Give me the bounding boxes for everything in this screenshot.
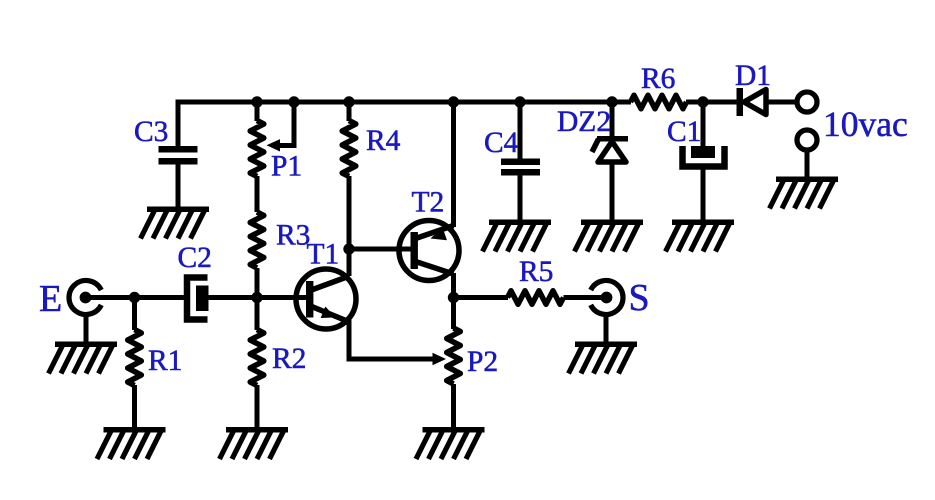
svg-text:D1: D1 (735, 60, 771, 92)
zener diode DZ2 (592, 136, 628, 162)
wire P1 to R3 (255, 176, 260, 212)
svg-text:C3: C3 (134, 116, 168, 148)
wire T2 base (349, 247, 412, 252)
wire R4 top stub (347, 102, 352, 121)
transistor T2 (PNP) (399, 221, 459, 281)
wire E terminal to C2 (85, 295, 185, 300)
wire D1 to 10vac terminal (766, 100, 797, 105)
ground (E) (49, 342, 118, 374)
diode D1 (737, 88, 767, 116)
terminal S (output connector) (591, 281, 623, 315)
transistor T1 (NPN) (296, 269, 356, 329)
svg-text:R1: R1 (148, 345, 182, 377)
wire C1 node to D1 (703, 100, 737, 105)
ground (R2) (220, 427, 289, 459)
ground (C1) (666, 220, 735, 252)
svg-text:T1: T1 (307, 239, 340, 271)
terminal E (input connector) (69, 281, 101, 315)
ground (DZ2) (575, 220, 644, 252)
wire rail to R6 (610, 100, 631, 105)
resistor R3 (250, 212, 264, 268)
resistor R2 (250, 330, 264, 386)
svg-text:C1: C1 (667, 116, 701, 148)
svg-text:10vac: 10vac (823, 104, 908, 144)
junction node (349,249) (343, 243, 354, 254)
junction node (257,297.5) (251, 292, 262, 303)
wire P1 top stub (255, 102, 260, 121)
svg-text:R6: R6 (641, 63, 675, 95)
svg-text:C4: C4 (484, 127, 519, 159)
wire P1 wiper vertical (292, 102, 297, 146)
wire R6 to C1 node (686, 100, 704, 105)
wire C3 top stub (176, 100, 181, 147)
svg-text:P1: P1 (271, 151, 302, 183)
wire C2 to T1 base (208, 295, 306, 300)
capacitor C1 (polarized) (683, 146, 725, 167)
wire R3 to R2 node (255, 268, 260, 330)
wire E terminal to ground (84, 314, 89, 343)
svg-text:C2: C2 (178, 242, 212, 274)
junction node (453.5,102) (448, 96, 459, 107)
resistor R6 (631, 95, 687, 109)
wire top supply rail (178, 100, 612, 105)
wire P2 to ground (451, 384, 456, 428)
wire DZ2 top (610, 102, 615, 138)
svg-text:S: S (629, 277, 650, 319)
wire 10vac lower terminal to ground (805, 151, 810, 178)
svg-text:R3: R3 (276, 220, 310, 252)
capacitor C3 (159, 146, 198, 165)
wire R4 bottom to T1 collector / T2 base node (347, 176, 352, 276)
wire P1 wiper horizontal (277, 143, 297, 148)
capacitor C4 (501, 159, 540, 176)
svg-text:R4: R4 (366, 125, 401, 157)
svg-text:E: E (39, 278, 62, 320)
capacitor C2 (polarized) (187, 278, 209, 320)
ground (P2) (416, 427, 485, 459)
svg-text:R5: R5 (519, 256, 553, 288)
wire C1 to ground (701, 169, 706, 221)
resistor R5 (508, 291, 564, 305)
wire R5 to S terminal (564, 295, 605, 300)
svg-text:P2: P2 (467, 346, 498, 378)
wire T2 emitter vertical from rail (451, 102, 456, 227)
wire T1 emitter to P2 wiper (347, 357, 437, 362)
wire DZ2 to ground (610, 161, 615, 221)
ground (S) (569, 342, 638, 374)
wire node to R5 (454, 295, 509, 300)
junction node (612,102) (606, 96, 617, 107)
svg-text:DZ2: DZ2 (557, 106, 611, 138)
wire R1 to ground (132, 385, 137, 428)
ground (C4) (483, 220, 552, 252)
wire C4 top (518, 102, 523, 159)
wire P2 top stub (451, 298, 456, 330)
svg-text:R2: R2 (272, 343, 306, 375)
wire C3 to ground (176, 164, 181, 208)
resistor R4 (342, 121, 356, 177)
wire R2 to ground (255, 385, 260, 428)
svg-text:T2: T2 (412, 187, 445, 219)
potentiometer P2 (433, 328, 461, 384)
wire T2 collector vertical (451, 273, 456, 298)
wire C4 to ground (518, 175, 523, 221)
junction node (520,102) (514, 96, 525, 107)
ground (10vac) (770, 177, 839, 209)
wire S terminal to ground (604, 314, 609, 343)
wire C1 top (701, 102, 706, 147)
ground (C3) (141, 207, 210, 239)
potentiometer P1 (250, 121, 280, 177)
wire T1 emitter vertical (347, 320, 352, 362)
junction node (134.5,297.5) (129, 292, 140, 303)
junction node (349,102) (343, 96, 354, 107)
junction node (294,102) (288, 96, 299, 107)
terminal 10vac lower circle (797, 130, 817, 150)
terminal 10vac upper circle (797, 92, 817, 112)
junction node (703,102) (697, 96, 708, 107)
wire R1 top (132, 298, 137, 331)
resistor R1 (128, 330, 142, 386)
junction node (453.5,297.5) (448, 292, 459, 303)
ground (R1) (97, 427, 166, 459)
junction node (257,102) (251, 96, 262, 107)
